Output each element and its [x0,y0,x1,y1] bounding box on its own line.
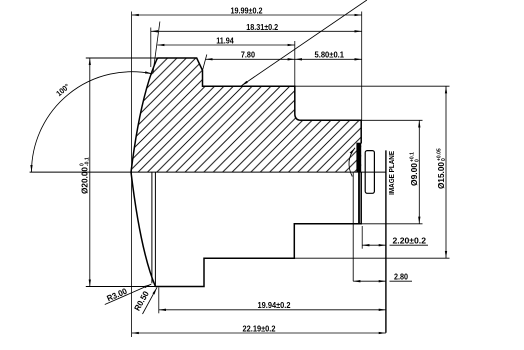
dimension phi15.00 [445,86,447,258]
front rim edge lines below axis [151,172,153,283]
extension line: lens vertex [131,12,133,338]
extension: phi20 top [86,57,157,59]
dimension 19.94±0.2 [159,309,386,311]
extension line: 19.94 left [158,288,160,314]
dimension 22.19±0.2 [132,332,386,334]
svg-text:2.80: 2.80 [394,271,408,281]
extension: thread start mini slant [203,55,207,71]
extension: phi15 top [295,85,450,87]
dimension 2.80 [353,280,386,282]
image plane line [385,150,387,332]
barrel outline top half [157,58,361,144]
rear filter element (blackened) [356,143,361,173]
lens barrel cross-section (upper half, hatched) [132,58,361,172]
dimension phi9.00 [418,120,420,224]
svg-text:0: 0 [414,159,420,162]
svg-text:18.31±0.2: 18.31±0.2 [246,22,278,32]
svg-text:Ø20.00: Ø20.00 [79,167,89,194]
dimension phi20.00 [89,58,91,287]
svg-text:2.20±0.2: 2.20±0.2 [393,235,427,245]
svg-text:19.99±0.2: 19.99±0.2 [231,6,263,16]
extension line: barrel front face [150,28,152,68]
dimension 2.20±0.2 [362,244,386,246]
extension: phi15 bottom [294,257,449,259]
dimension 11.94 [157,44,295,46]
R3.00 leader [105,284,151,304]
lens dome front surface (glass profile) [131,58,157,287]
filter leader [349,148,355,177]
R0.50 leader [143,288,157,314]
svg-text:5.80±0.1: 5.80±0.1 [315,50,345,60]
extension ray (100deg / 11.94) slanted [153,22,160,74]
svg-text:19.94±0.2: 19.94±0.2 [258,300,291,310]
dimension 7.80 [206,58,295,60]
dimension 18.31±0.2 [151,30,362,32]
svg-text:Ø15.00: Ø15.00 [436,162,446,189]
extension: phi20 bottom [86,286,156,288]
svg-text:IMAGE PLANE: IMAGE PLANE [387,151,396,195]
extension: phi9 bottom [361,223,422,225]
extension: phi9 top [361,119,422,121]
dimension 19.99±0.2 [132,14,362,16]
svg-text:-0.1: -0.1 [85,157,91,166]
svg-text:7.80: 7.80 [241,50,255,60]
extension line: barrel rear plane [361,12,363,121]
100 degree FOV arc dimension [31,72,152,172]
thread callout leader (to top-right) [241,0,367,86]
optical axis centerline [30,171,386,173]
dimension 5.80±0.1 [295,58,362,60]
svg-text:Ø9.00: Ø9.00 [409,163,419,186]
extension line: 2.20 left below axis [361,226,363,249]
svg-text:0: 0 [441,158,447,161]
rear filter edge (external view) [352,172,354,281]
extension line: flange face [294,41,296,86]
svg-text:11.94: 11.94 [216,36,234,46]
svg-text:22.19±0.2: 22.19±0.2 [243,323,276,333]
barrel outline bottom half (external view) [155,172,361,286]
sensor cover glass [365,151,374,194]
